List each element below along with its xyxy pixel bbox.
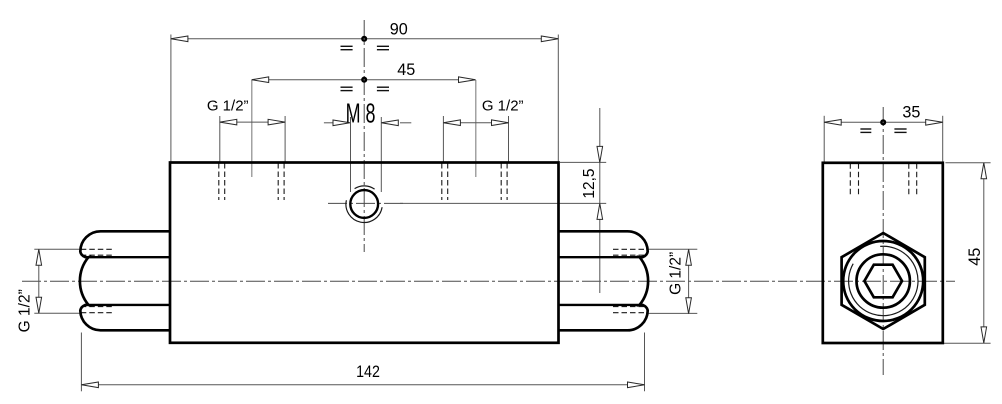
svg-text:G 1/2”: G 1/2” (482, 97, 524, 114)
svg-text:M 8: M 8 (346, 97, 376, 128)
svg-text:45: 45 (397, 61, 415, 79)
svg-text:142: 142 (356, 363, 380, 381)
svg-text:G 1/2”: G 1/2” (668, 252, 685, 295)
svg-text:90: 90 (390, 21, 408, 39)
svg-text:G 1/2”: G 1/2” (207, 97, 249, 114)
svg-text:35: 35 (902, 104, 920, 122)
svg-text:12,5: 12,5 (581, 169, 598, 199)
svg-text:G 1/2”: G 1/2” (17, 289, 34, 332)
svg-text:45: 45 (966, 248, 984, 266)
